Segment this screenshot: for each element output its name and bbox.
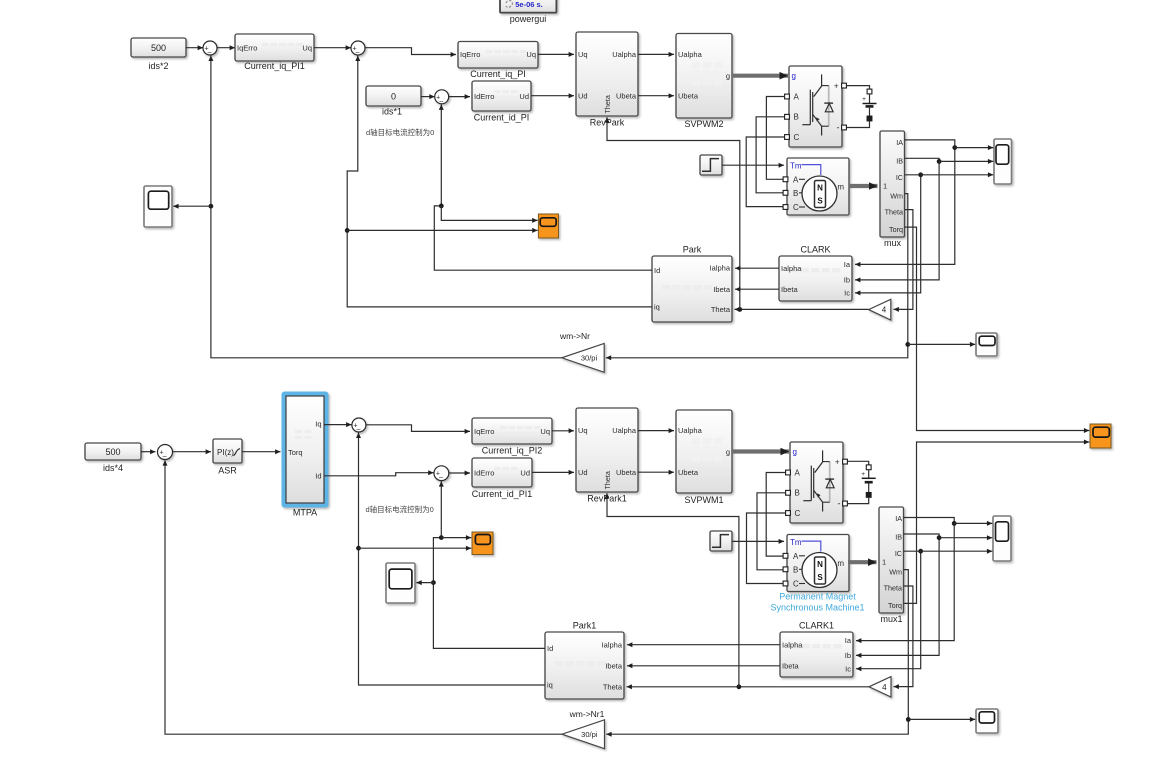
svg-text:wm->Nr1: wm->Nr1	[569, 709, 605, 719]
svg-text:Theta: Theta	[884, 584, 902, 593]
wire mux1 IB to CLARK1 Ib with scope branch	[856, 534, 992, 658]
wire Current_id_PI1 to RevPark1 Ud	[532, 470, 574, 475]
svg-text:B: B	[793, 565, 798, 574]
svg-text:A: A	[793, 175, 799, 184]
wire CLARK1 Ibeta to Park1	[627, 663, 780, 668]
svg-text:IC: IC	[895, 549, 902, 558]
svg-text:30/pi: 30/pi	[581, 353, 598, 362]
svg-text:A: A	[794, 92, 800, 101]
svg-text:N: N	[817, 560, 823, 569]
svg-text:Current_iq_PI2: Current_iq_PI2	[482, 446, 543, 456]
svg-text:SVPWM2: SVPWM2	[684, 119, 723, 129]
svg-text:iq: iq	[547, 681, 553, 690]
sum S2b	[352, 418, 366, 433]
svg-text:+: +	[861, 471, 865, 478]
svg-text:Current_id_PI: Current_id_PI	[474, 113, 530, 123]
svg-text:30/pi: 30/pi	[581, 730, 598, 739]
svg-text:Uq: Uq	[526, 50, 536, 59]
svg-text:Theta: Theta	[603, 683, 623, 692]
svg-text:ASR: ASR	[218, 466, 237, 476]
block Park top	[652, 245, 732, 323]
block SVPWM2	[676, 34, 732, 130]
wire mux1 IA to CLARK1 Ia with scope branch	[856, 518, 992, 644]
wire gain4 to Park Theta with RevPark branch	[605, 117, 869, 312]
sum S3b	[434, 466, 449, 481]
wire step to PMSM Tm	[722, 163, 784, 168]
wire mux1 Wm to gain 30/pi bottom with scope branch	[606, 570, 975, 737]
svg-text:Ibeta: Ibeta	[713, 285, 731, 294]
svg-text:Torq: Torq	[288, 448, 303, 457]
svg-text:Id: Id	[547, 644, 553, 653]
wire step to PMSM Tm bottom	[732, 539, 784, 544]
wire CLARK Ialpha to Park	[735, 266, 779, 271]
wire RevPark1 Ualpha to SVPWM1	[638, 428, 674, 433]
svg-text:C: C	[794, 133, 800, 142]
block mux top	[880, 131, 905, 248]
wire S3b to Current_id_PI1	[449, 471, 470, 476]
svg-text:Ialpha: Ialpha	[602, 640, 623, 649]
svg-text:ids*2: ids*2	[148, 61, 168, 71]
block CLARK top	[779, 245, 852, 302]
svg-text:1: 1	[883, 181, 887, 190]
sum S1b	[158, 445, 173, 461]
step block top	[700, 155, 722, 175]
svg-text:IC: IC	[896, 173, 903, 182]
svg-text:Id: Id	[315, 472, 321, 481]
svg-text:wm->Nr: wm->Nr	[559, 331, 590, 341]
svg-text:Theta: Theta	[711, 305, 731, 314]
svg-text:-: -	[838, 499, 841, 509]
wire Park iq feedback to sum S2 and orange display	[345, 56, 652, 307]
svg-text:SVPWM1: SVPWM1	[684, 495, 723, 505]
svg-text:Tm: Tm	[790, 161, 802, 170]
svg-text:–: –	[163, 453, 167, 460]
block Current_iq_PI2	[472, 418, 552, 456]
svg-text:Ualpha: Ualpha	[678, 426, 703, 435]
svg-text:mux1: mux1	[880, 614, 902, 624]
wire gain4 to Park1 Theta with RevPark1 branch	[605, 493, 870, 689]
svg-text:Ubeta: Ubeta	[616, 91, 637, 100]
svg-text:N: N	[817, 184, 823, 193]
block powergui (partially cut at top)	[500, 0, 556, 24]
svg-text:Ia: Ia	[844, 260, 851, 269]
svg-text:Ia: Ia	[845, 636, 852, 645]
svg-text:IB: IB	[896, 156, 903, 165]
wire CLARK Ibeta to Park	[735, 287, 779, 292]
svg-text:Ud: Ud	[578, 468, 588, 477]
orange display top middle	[538, 214, 558, 238]
svg-text:mux: mux	[884, 238, 902, 248]
svg-text:g: g	[726, 71, 730, 80]
svg-text:4: 4	[882, 306, 887, 315]
thick wire PMSM m to mux	[849, 182, 878, 190]
scope bottom-right 3 inputs	[993, 516, 1011, 561]
svg-text:–: –	[439, 98, 443, 105]
svg-text:powergui: powergui	[510, 14, 547, 24]
svg-text:Ialpha: Ialpha	[782, 640, 803, 649]
svg-text:IdErro: IdErro	[474, 92, 494, 101]
block Current_id_PI1	[472, 458, 533, 499]
block MTPA selected with blue highlight	[282, 392, 329, 518]
wire Park Id feedback to sum S3 and orange display	[434, 105, 652, 271]
wire mux IB to CLARK Ib with scope branch	[855, 158, 993, 282]
sum S2	[351, 41, 365, 56]
svg-text:Ubeta: Ubeta	[678, 468, 699, 477]
gain 4 top	[869, 299, 891, 320]
svg-text:+: +	[835, 457, 840, 466]
wire 30/pi output feedback to sum S1 with scope branch	[173, 56, 562, 358]
svg-text:0: 0	[391, 92, 396, 102]
gain 30/pi top wm->Nr	[559, 331, 604, 372]
wire inverter C to PMSM C	[746, 137, 784, 207]
svg-text:Ibeta: Ibeta	[605, 662, 623, 671]
svg-text:IqErro: IqErro	[237, 43, 257, 52]
svg-text:Current_id_PI1: Current_id_PI1	[472, 489, 533, 499]
gain 4 bottom	[869, 677, 891, 697]
svg-text:–: –	[208, 49, 212, 56]
svg-text:g: g	[792, 72, 796, 81]
wire RevPark1 Ubeta to SVPWM1	[638, 470, 674, 475]
block universal bridge inverter bottom	[786, 442, 848, 523]
wire MTPA Id to sum S3b	[324, 470, 434, 476]
constant ids*1 value 0	[366, 86, 421, 117]
svg-text:Ibeta: Ibeta	[782, 661, 800, 670]
block PMSM machine bottom with blue label	[770, 535, 864, 613]
wire mux IC to CLARK Ic with scope branch	[855, 172, 993, 295]
svg-text:Ic: Ic	[845, 664, 851, 673]
block mux1	[879, 507, 904, 624]
svg-text:m: m	[837, 183, 844, 192]
wire inverter A to PMSM A bottom	[766, 473, 785, 557]
wire MTPA Iq to sum S2b	[324, 422, 352, 427]
orange display bottom middle	[472, 532, 493, 555]
svg-text:Uq: Uq	[540, 427, 550, 436]
svg-text:Ubeta: Ubeta	[616, 468, 637, 477]
svg-text:4: 4	[882, 683, 887, 692]
svg-text:IqErro: IqErro	[474, 427, 494, 436]
wire ASR to MTPA Torq	[242, 449, 281, 454]
dc voltage source battery top	[847, 86, 877, 128]
scope bottom-right small speed	[976, 709, 998, 733]
sum S1	[203, 41, 217, 56]
svg-text:Current_iq_PI: Current_iq_PI	[470, 69, 526, 79]
svg-text:Park1: Park1	[573, 621, 597, 631]
svg-text:MTPA: MTPA	[293, 508, 317, 518]
svg-text:Ialpha: Ialpha	[781, 264, 802, 273]
svg-text:Ualpha: Ualpha	[612, 426, 637, 435]
svg-text:S: S	[817, 197, 823, 206]
block Current_iq_PI	[458, 42, 538, 80]
block RevPark1	[576, 408, 638, 504]
wire mux1 Theta to gain 4 bottom	[894, 586, 913, 689]
svg-text:Current_iq_PI1: Current_iq_PI1	[244, 61, 305, 71]
scope bottom middle	[386, 563, 415, 603]
wire S1 to Current_iq_PI1	[217, 45, 235, 50]
block RevPark	[576, 32, 638, 128]
svg-text:Uq: Uq	[578, 50, 588, 59]
svg-text:C: C	[793, 203, 799, 212]
svg-text:Iq: Iq	[315, 419, 321, 428]
wire mux Theta to gain 4	[894, 210, 913, 312]
svg-text:Ibeta: Ibeta	[781, 285, 799, 294]
wire Park1 iq feedback to sum S2b with orange branch	[356, 433, 545, 685]
thick wire SVPWM2 g to inverter	[732, 72, 788, 80]
wire Current_iq_PI to RevPark Uq	[538, 52, 574, 57]
svg-text:Ubeta: Ubeta	[678, 91, 699, 100]
wire 0 to sum S3	[421, 94, 435, 99]
wire mux1 Torq to torque scope	[904, 440, 1090, 604]
svg-text:IA: IA	[895, 514, 902, 523]
svg-text:Theta: Theta	[603, 471, 612, 489]
svg-text:+: +	[834, 81, 839, 90]
wire inverter A to PMSM A	[766, 97, 784, 180]
svg-text:iq: iq	[654, 303, 660, 312]
svg-text:Id: Id	[654, 266, 660, 275]
wire Current_id_PI to RevPark Ud	[531, 93, 574, 98]
wire 30/pi bottom output feedback to sum S1b	[163, 460, 563, 734]
svg-text:Uq: Uq	[302, 43, 312, 52]
svg-text:IdErro: IdErro	[474, 469, 494, 478]
annotation chinese d-axis note bottom	[366, 504, 434, 514]
wire 500 to sum S1b	[141, 449, 156, 454]
block Current_id_PI	[472, 81, 531, 123]
wire RevPark Ualpha to SVPWM2	[638, 52, 674, 57]
svg-text:Theta: Theta	[885, 208, 903, 217]
block CLARK1	[780, 621, 853, 678]
wire S3 to Current_id_PI	[449, 94, 470, 99]
constant ids*4 value 500	[85, 443, 141, 473]
svg-text:Ib: Ib	[844, 276, 850, 285]
wire S2b to Current_iq_PI2	[366, 425, 470, 434]
svg-text:ids*1: ids*1	[382, 107, 402, 117]
svg-text:1: 1	[882, 557, 886, 566]
svg-text:CLARK1: CLARK1	[799, 621, 834, 631]
block universal bridge inverter top	[785, 66, 847, 147]
svg-text:–: –	[357, 426, 361, 433]
svg-text:Ualpha: Ualpha	[678, 50, 703, 59]
svg-text:Wm: Wm	[890, 192, 903, 201]
svg-text:Ic: Ic	[844, 289, 850, 298]
svg-text:Torq: Torq	[889, 225, 903, 234]
svg-text:IB: IB	[895, 532, 902, 541]
svg-text:Ud: Ud	[519, 92, 529, 101]
svg-text:–: –	[356, 49, 360, 56]
wire Current_iq_PI2 to RevPark1 Uq	[552, 428, 574, 433]
svg-text:d轴目标电流控制为0: d轴目标电流控制为0	[366, 504, 434, 514]
wire S1b to ASR	[173, 449, 212, 454]
sum S3	[435, 90, 449, 105]
svg-text:IA: IA	[896, 138, 903, 147]
dc voltage source battery bottom	[848, 461, 876, 503]
svg-text:d轴目标电流控制为0: d轴目标电流控制为0	[366, 127, 434, 137]
svg-text:A: A	[793, 552, 799, 561]
svg-text:C: C	[793, 580, 799, 589]
step block bottom	[710, 531, 732, 551]
thick wire PMSM m to mux1	[848, 558, 877, 566]
wire 500 to sum S1	[186, 45, 203, 50]
thick wire SVPWM1 g to inverter bottom	[732, 448, 789, 456]
block SVPWM1	[676, 410, 732, 505]
wire inverter B to PMSM B bottom	[757, 493, 785, 570]
svg-text:A: A	[795, 468, 801, 477]
svg-text:Ib: Ib	[845, 651, 851, 660]
svg-text:IqErro: IqErro	[460, 50, 480, 59]
wire inverter C to PMSM C bottom	[747, 513, 786, 584]
svg-text:m: m	[837, 559, 844, 568]
svg-text:g: g	[726, 447, 730, 456]
gain 30/pi bottom wm->Nr1	[562, 709, 605, 749]
wire mux Torq to torque scope	[905, 227, 1090, 433]
svg-text:Torq: Torq	[888, 601, 902, 610]
svg-text:C: C	[795, 509, 801, 518]
orange torque display right	[1090, 424, 1111, 448]
svg-text:Ualpha: Ualpha	[612, 50, 637, 59]
svg-text:Ud: Ud	[578, 91, 588, 100]
block ASR PI(z)	[213, 439, 242, 476]
svg-text:g: g	[793, 448, 797, 457]
wire Park1 Id feedback to sum S3b with scope and orange branches	[416, 481, 545, 648]
svg-text:B: B	[793, 189, 798, 198]
svg-text:Synchronous Machine1: Synchronous Machine1	[770, 603, 864, 613]
svg-text:Tm: Tm	[790, 538, 802, 547]
svg-text:Ud: Ud	[520, 469, 530, 478]
svg-text:Permanent Magnet: Permanent Magnet	[779, 592, 856, 602]
svg-text:500: 500	[151, 43, 166, 53]
svg-text:Theta: Theta	[603, 95, 612, 113]
scope left top	[144, 186, 172, 227]
wire mux Wm to gain 30/pi with scope branch	[606, 194, 976, 361]
svg-text:Ialpha: Ialpha	[710, 264, 731, 273]
annotation chinese d-axis note top	[366, 127, 434, 137]
svg-text:S: S	[817, 573, 823, 582]
scope top-right 3 inputs	[994, 139, 1012, 184]
svg-text:CLARK: CLARK	[800, 245, 830, 255]
wire S2 to Current_iq_PI	[365, 48, 456, 57]
svg-text:ids*4: ids*4	[103, 463, 123, 473]
wire RevPark Ubeta to SVPWM2	[638, 93, 674, 98]
svg-text:–: –	[439, 474, 443, 481]
svg-text:500: 500	[105, 447, 120, 457]
scope mid-right speed	[976, 333, 997, 356]
block Current_iq_PI1	[235, 34, 314, 71]
svg-text:+: +	[862, 96, 866, 103]
wire Current_iq_PI1 to sum S2	[314, 45, 351, 50]
svg-text:B: B	[795, 489, 800, 498]
svg-text:-: -	[837, 123, 840, 133]
svg-text:5e-06 s.: 5e-06 s.	[515, 0, 543, 9]
wire mux IA to CLARK Ia with scope branch	[855, 140, 993, 267]
constant ids*2 value 500	[131, 38, 186, 71]
wire inverter B to PMSM B	[756, 117, 784, 193]
svg-text:B: B	[794, 113, 799, 122]
svg-text:Uq: Uq	[578, 426, 588, 435]
svg-text:PI(z): PI(z)	[217, 448, 234, 457]
wire mux1 IC to CLARK1 Ic with scope branch	[856, 549, 992, 672]
svg-text:Wm: Wm	[889, 568, 902, 577]
svg-text:Park: Park	[683, 245, 702, 255]
wire CLARK1 Ialpha to Park1	[627, 642, 780, 647]
block Park1	[545, 621, 624, 700]
block PMSM machine top	[783, 158, 849, 215]
